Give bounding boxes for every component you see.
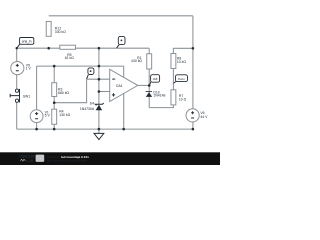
wire R3 R4 column bbox=[53, 66, 55, 129]
junction ground tap bbox=[98, 128, 101, 131]
wire top rail 44V bbox=[49, 15, 193, 17]
junction V1 bottom rail bbox=[35, 128, 38, 131]
switch SW1 bbox=[10, 89, 19, 103]
svg-text:1N4148: 1N4148 bbox=[153, 94, 165, 98]
node probe flag on minus input bbox=[87, 68, 94, 79]
wire node A horizontal bbox=[17, 47, 150, 49]
junction R8 top right bbox=[192, 47, 195, 50]
node probe flag on node A bbox=[117, 36, 125, 48]
svg-text:44 V: 44 V bbox=[200, 115, 208, 119]
svg-text:OA1: OA1 bbox=[116, 84, 123, 88]
resistor R12 bbox=[46, 22, 51, 37]
svg-text:SW1: SW1 bbox=[23, 95, 31, 99]
svg-text:1 V: 1 V bbox=[26, 67, 32, 71]
wire op-amp minus input bbox=[87, 78, 110, 80]
svg-text:1N4730A: 1N4730A bbox=[80, 107, 95, 111]
resistor R7 bbox=[171, 90, 176, 105]
junction plus input bbox=[98, 90, 101, 93]
junction node A vertical tap bbox=[98, 47, 101, 50]
op-amp OA1 bbox=[110, 69, 138, 101]
resistor R4 bbox=[52, 109, 57, 124]
wire R8 R7 column bbox=[173, 48, 193, 90]
node ana_in flag bbox=[17, 38, 34, 48]
svg-text:330 kΩ: 330 kΩ bbox=[55, 30, 66, 34]
wire bottom ground rail bbox=[17, 128, 194, 130]
voltage source V6 bbox=[186, 109, 199, 122]
svg-text:680 kΩ: 680 kΩ bbox=[58, 91, 69, 95]
svg-text:81 kΩ: 81 kΩ bbox=[65, 56, 74, 60]
junction minus input bbox=[98, 78, 101, 81]
wire vertical x99 node A to D4 to rail bbox=[98, 48, 100, 129]
wire D10 anode to R7 bottom bbox=[149, 105, 173, 108]
svg-text:http://circuitlab.com/c/g54a5z: http://circuitlab.com/c/g54a5z bbox=[47, 158, 88, 162]
junction R3 R4 tap bbox=[53, 101, 56, 104]
svg-text:LAB: LAB bbox=[26, 159, 34, 163]
wire D10 column bbox=[148, 85, 150, 107]
svg-text:130 kΩ: 130 kΩ bbox=[59, 113, 70, 117]
resistor R1 bbox=[147, 54, 152, 69]
svg-text:10 Ω: 10 Ω bbox=[179, 98, 187, 102]
zener diode D4 bbox=[95, 103, 103, 110]
node Pwm flag bbox=[174, 75, 188, 84]
diode D10 bbox=[146, 91, 153, 97]
voltage source V1 bbox=[30, 110, 43, 123]
junction R4 bottom rail bbox=[53, 128, 56, 131]
junction R3 top bbox=[53, 65, 56, 68]
svg-text:Pwm: Pwm bbox=[178, 77, 185, 81]
wire op-amp output bbox=[138, 84, 150, 86]
svg-text:5 V: 5 V bbox=[45, 114, 51, 118]
junction node A / V5 corner bbox=[16, 47, 18, 49]
resistor R5 bbox=[60, 45, 76, 49]
resistor R8 bbox=[171, 54, 176, 69]
wire op-amp V- pin to rail bbox=[123, 94, 125, 130]
voltage source V5 bbox=[11, 62, 24, 75]
junction 5V rail crossing bbox=[98, 65, 101, 68]
resistor R3 bbox=[52, 83, 57, 97]
svg-text:D4: D4 bbox=[90, 102, 94, 106]
wire right vertical drop to V6 bbox=[192, 16, 194, 109]
svg-text:10 kΩ: 10 kΩ bbox=[177, 60, 186, 64]
wire op-amp plus input bbox=[99, 91, 110, 93]
junction op-amp V- rail bbox=[122, 128, 125, 131]
junction V6 bottom rail bbox=[192, 128, 195, 131]
footer bar bbox=[0, 152, 220, 165]
wire R3/R4 junction to minus net bbox=[54, 79, 86, 103]
wire V1 5V rail to op-amp V+ bbox=[37, 66, 124, 77]
svg-text:430 kΩ: 430 kΩ bbox=[131, 59, 142, 63]
junction op-amp output bbox=[148, 84, 151, 87]
wire V6 bottom lead bbox=[192, 122, 194, 129]
svg-text:out: out bbox=[153, 77, 158, 81]
node out flag bbox=[149, 75, 159, 86]
wire R1 column bbox=[148, 48, 150, 85]
wire left column V5/SW1 bbox=[16, 48, 18, 129]
svg-text:ana_in: ana_in bbox=[22, 40, 32, 44]
junction R12 bottom bbox=[47, 47, 50, 50]
footer CircuitLab logo bbox=[19, 154, 44, 163]
wire V1 column bbox=[36, 66, 38, 129]
ground bbox=[94, 129, 104, 140]
